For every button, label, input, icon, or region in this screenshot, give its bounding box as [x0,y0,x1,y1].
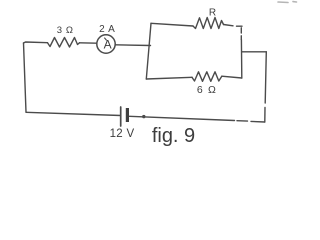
wire dashed corner top right [237,26,243,39]
wire bottom branch left [146,77,192,79]
svg-text:R: R [209,8,216,19]
stray scan marks top right [278,1,297,4]
wire node C connector [242,51,266,53]
svg-text:A: A [104,37,112,51]
resistor R zigzag [193,18,224,29]
ammeter U1 circle [97,35,115,53]
wire top left [24,42,48,43]
wire bottom left [26,112,121,115]
wire parallel box right vertical [240,40,242,79]
wire left vertical [24,43,27,112]
svg-text:3 Ω: 3 Ω [57,25,74,36]
wire parallel box left vertical [146,23,151,79]
wire right outer vertical [265,52,267,122]
wire resistor to ammeter [80,42,97,44]
wire top branch left [151,23,193,26]
resistor R1 3Ω zigzag [48,38,80,48]
svg-text:fig. 9: fig. 9 [152,125,195,147]
wire ammeter to node B [115,44,150,47]
ammeter needle mark [105,38,107,40]
wire bottom branch right [222,76,242,78]
wire top branch right [224,25,234,26]
svg-text:2 A: 2 A [99,24,115,35]
resistor R2 6Ω zigzag [192,72,222,82]
battery B1 plate positive [120,107,122,126]
battery B1 plate negative [126,108,129,122]
svg-text:12 V: 12 V [110,128,135,140]
junction dot [142,115,145,118]
svg-text:6 Ω: 6 Ω [197,84,217,96]
wire bottom right [130,116,265,122]
